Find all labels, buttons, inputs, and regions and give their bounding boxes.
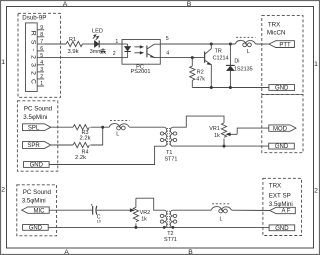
svg-text:A: A (64, 249, 69, 255)
resistor R2 47k (190, 58, 206, 88)
PC Sound dashed enclosure (bottom) (17, 185, 57, 236)
svg-text:1: 1 (40, 81, 43, 87)
wire SPR to R4 (51, 144, 73, 146)
svg-text:SPL: SPL (28, 125, 40, 131)
svg-text:5: 5 (166, 36, 169, 42)
wire coil to PTT tag (256, 43, 269, 45)
kanji aka (red) drawn as strokes (100, 48, 106, 54)
svg-text:T1: T1 (166, 150, 172, 156)
svg-text:Dsub-9P: Dsub-9P (22, 15, 46, 22)
svg-text:PC Sound: PC Sound (24, 106, 53, 113)
svg-text:A F: A F (281, 209, 290, 215)
potentiometer VR1 1k (209, 123, 237, 146)
resistor R4 2.2k (73, 142, 89, 161)
tag SPL (23, 124, 51, 132)
svg-text:PC Sound: PC Sound (23, 189, 52, 196)
svg-text:SPR: SPR (27, 143, 40, 149)
svg-text:C1214: C1214 (213, 55, 229, 61)
svg-text:1S2135: 1S2135 (234, 66, 253, 72)
wire opto pin4 to base (160, 57, 204, 59)
svg-text:4: 4 (40, 60, 43, 66)
svg-text:7: 7 (40, 39, 43, 45)
tag GND (MOD) (269, 143, 295, 150)
svg-text:1k: 1k (214, 133, 220, 139)
wire T1 secondary top to VR1 top (173, 116, 224, 127)
svg-text:3mm: 3mm (90, 49, 102, 55)
svg-text:1: 1 (1, 59, 5, 66)
wire opto pin5 to coil (PTT rail) (160, 43, 235, 45)
wire R4 to node A riser (90, 127, 102, 145)
svg-text:ST71: ST71 (164, 156, 177, 162)
node T2 primary bottom junction (163, 226, 166, 229)
svg-text:TRX: TRX (269, 183, 281, 190)
svg-text:3.5φMini: 3.5φMini (22, 197, 46, 204)
inductor L (speaker line) (109, 121, 129, 138)
TRX MicCN dashed enclosure (262, 16, 303, 95)
svg-text:A: A (63, 1, 68, 8)
svg-text:3.5φMini: 3.5φMini (23, 114, 47, 121)
wire LED to opto pin1 (100, 43, 122, 45)
tag MIC (22, 207, 50, 214)
svg-text:6: 6 (40, 46, 43, 52)
wire T1 secondary bottom to GND rail (173, 145, 269, 147)
svg-text:MOD: MOD (273, 126, 288, 132)
node diode junction (229, 43, 232, 46)
transistor Q1 C1214 (205, 44, 229, 88)
svg-text:2: 2 (40, 74, 43, 80)
pin 9 (37, 29, 44, 31)
wire coil to AF tag (232, 209, 270, 211)
pin 3 (37, 71, 44, 73)
node emitter/rail junction (210, 86, 213, 89)
tag PTT (269, 41, 295, 49)
pin 7 (37, 43, 44, 45)
svg-text:R1: R1 (69, 37, 76, 43)
PC Sound dashed enclosure (middle) (17, 101, 57, 171)
node collector junction (210, 43, 213, 46)
wire MIC to C (49, 209, 92, 211)
node diode/rail junction (229, 86, 232, 89)
svg-text:VR2: VR2 (140, 210, 151, 216)
svg-text:PTT: PTT (279, 42, 291, 48)
svg-text:B: B (188, 249, 193, 255)
svg-text:MIC: MIC (34, 208, 46, 214)
svg-text:2.2k: 2.2k (80, 135, 91, 141)
capacitor C 10 (90, 203, 100, 224)
tag A F (270, 207, 296, 214)
svg-text:L: L (220, 216, 223, 222)
TRX MOD dashed enclosure (262, 95, 303, 153)
svg-text:3.9k: 3.9k (68, 49, 79, 55)
svg-text:MicCN: MicCN (267, 30, 286, 37)
resistor R3 2.2k (73, 125, 91, 142)
resistor R1 3.9k (66, 37, 82, 55)
svg-text:5: 5 (40, 53, 43, 59)
svg-text:Di: Di (234, 59, 239, 65)
svg-text:2: 2 (113, 51, 116, 57)
node base/R2 junction (191, 56, 194, 59)
wire T2 secondary top to coil (173, 209, 211, 211)
svg-text:ST71: ST71 (164, 237, 177, 243)
svg-text:+: + (90, 203, 93, 208)
wire R1 to LED (82, 43, 94, 45)
svg-text:9: 9 (40, 25, 43, 31)
svg-text:2: 2 (314, 187, 318, 194)
tag GND (EXT SP) (269, 225, 295, 232)
svg-text:L: L (116, 132, 119, 138)
svg-text:10: 10 (97, 220, 101, 224)
tag SPR (23, 142, 51, 150)
svg-text:1: 1 (314, 61, 318, 68)
diode Di 1S2135 (226, 44, 253, 88)
TRX EXT SP dashed enclosure (263, 178, 302, 235)
pin 6 (37, 50, 44, 52)
pin 8 (37, 36, 44, 38)
node VR2 bottom junction (134, 226, 137, 229)
wire pin7 to R1 (44, 43, 66, 45)
pin 5 (37, 57, 44, 59)
wire R3 to node A (90, 126, 109, 128)
pin 4 (37, 64, 44, 66)
svg-text:3: 3 (40, 67, 43, 73)
svg-text:4: 4 (166, 50, 169, 56)
ground rail top section (192, 87, 269, 89)
node VR1 bottom junction (223, 145, 226, 148)
svg-text:2.2k: 2.2k (75, 155, 86, 161)
svg-text:TRX: TRX (268, 22, 280, 29)
svg-text:VR1: VR1 (209, 126, 220, 132)
wire VR2 top bypass to T2 primary top (136, 198, 164, 210)
pin 2 (37, 78, 44, 80)
transformer T1 ST71 (160, 127, 177, 162)
connector Dsub-9P dashed enclosure (18, 13, 61, 97)
svg-text:8: 8 (40, 32, 43, 38)
wire C to VR2 wiper (97, 209, 130, 211)
pin 1 (37, 85, 44, 87)
svg-text:1: 1 (115, 39, 118, 45)
inductor L (PTT line) (235, 37, 255, 55)
wire SPL to R3 (51, 126, 73, 128)
wire Dsub pin5 to opto pin2 (44, 57, 122, 59)
potentiometer VR2 1k (130, 198, 150, 227)
svg-text:1k: 1k (141, 217, 147, 223)
optocoupler U1 PS2001 (122, 40, 160, 75)
svg-text:PS2001: PS2001 (131, 69, 151, 75)
wire VR1 wiper to MOD (237, 128, 269, 134)
LED D1 3mm red (90, 28, 106, 55)
svg-text:B: B (187, 1, 192, 8)
tag MOD (269, 125, 296, 132)
transformer T2 ST71 (160, 210, 177, 243)
node A junction (101, 126, 104, 129)
connector CN1 RS-232C body (26, 23, 38, 92)
tag GND (PC sound) (24, 162, 50, 169)
svg-text:TR: TR (215, 48, 222, 54)
svg-text:L: L (247, 49, 250, 55)
svg-text:EXT SP: EXT SP (269, 192, 291, 199)
svg-text:47k: 47k (196, 76, 205, 82)
svg-text:R2: R2 (197, 70, 204, 76)
wire PC GND to T1 primary bottom (49, 146, 164, 164)
wire coil to T1 (129, 126, 164, 128)
inductor L (AF line) (211, 204, 231, 223)
tag GND (bottom PC) (23, 225, 49, 232)
svg-text:RS-232C: RS-232C (30, 31, 37, 88)
svg-text:2: 2 (1, 187, 5, 194)
ground rail bottom section (48, 226, 269, 228)
tag GND (MicCN) (269, 85, 295, 92)
svg-text:LED: LED (92, 28, 103, 34)
node T2 secondary bottom junction (172, 226, 175, 229)
